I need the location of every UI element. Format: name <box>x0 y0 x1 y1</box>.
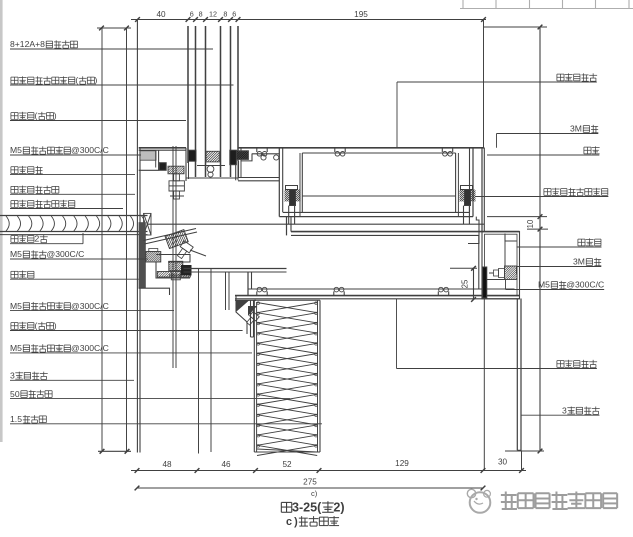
svg-text:): ) <box>54 111 57 121</box>
corner box mid divider <box>487 279 505 281</box>
label flexible shim <box>11 167 18 174</box>
wall line B x=126.5 <box>126 28 128 451</box>
central bolt with hatched head <box>169 261 183 271</box>
outer right face of female unit <box>481 148 483 231</box>
svg-text:(: ( <box>75 75 78 85</box>
bottom small dimension between wall lines <box>98 450 131 452</box>
svg-text:@300C/C: @300C/C <box>71 343 109 353</box>
stack joint seam line <box>148 223 485 225</box>
setting block checkered at glass center <box>206 151 219 162</box>
svg-text:M5: M5 <box>538 280 550 290</box>
insulating glass 8+12A+8 vertical lines <box>187 26 189 163</box>
hex bolt stack left <box>146 252 161 263</box>
black sealant triangles <box>237 301 250 312</box>
bottom dimension line 48/46/52/129/30 <box>131 470 526 472</box>
svg-text:8: 8 <box>199 10 203 19</box>
svg-text:@300C/C: @300C/C <box>46 249 84 259</box>
svg-text:25: 25 <box>461 279 470 288</box>
wall line x=198.5 <box>198 269 200 454</box>
corner unit box outer <box>482 232 520 299</box>
label EPDM gasket black <box>11 77 18 84</box>
svg-text:M5: M5 <box>10 301 22 311</box>
wall lines x=173/176 <box>172 146 174 368</box>
svg-text:6: 6 <box>190 10 194 19</box>
black gasket at decor line <box>160 163 167 171</box>
label sealant black <box>11 113 18 120</box>
svg-text:52: 52 <box>282 460 292 469</box>
label unit male profile <box>557 361 564 368</box>
right dim extension lines <box>487 216 547 218</box>
label aluminium profile right <box>578 239 585 246</box>
black gasket wedge at joint <box>181 265 192 276</box>
transom top castellation pocket <box>241 148 252 161</box>
svg-text:c): c) <box>311 489 318 498</box>
bottom overall dimension 275 <box>137 487 483 489</box>
rotated hatched clamp block on diagonal <box>153 221 211 253</box>
svg-text:195: 195 <box>354 10 368 19</box>
liner sheet top piece <box>250 301 252 338</box>
EPDM gasket black right of glass <box>230 150 237 165</box>
dim 25 vertical at corner <box>473 268 475 299</box>
transom mid line <box>302 195 455 197</box>
svg-text:3M: 3M <box>570 124 582 134</box>
svg-text:@300C/C: @300C/C <box>566 280 604 290</box>
male transom bottom edge <box>248 288 515 290</box>
transom castellation lower teeth <box>252 153 279 155</box>
bracket L profile <box>156 255 190 263</box>
svg-text:3M: 3M <box>573 257 585 267</box>
label sealant joint <box>11 236 18 243</box>
extension line right corner x=484.3 down to dim <box>483 299 485 471</box>
M5 stainless round-head screw vertical <box>168 166 184 174</box>
corner box top-right notch step <box>505 234 517 242</box>
omega notches bottom edge <box>256 291 258 295</box>
svg-text:275: 275 <box>303 478 317 487</box>
top dimension line 40/6/8/12/8/6/195 <box>131 19 486 21</box>
svg-text:(: ( <box>35 321 38 331</box>
svg-text:): ) <box>95 75 98 85</box>
figure title 3-25 <box>281 502 291 512</box>
label aluminium decor line <box>11 186 18 193</box>
svg-text:(: ( <box>35 111 38 121</box>
diagonal bolt through clamp <box>175 241 193 260</box>
svg-text:30: 30 <box>498 458 508 467</box>
label aluminium profile <box>11 271 18 278</box>
label EPDM gasket right <box>544 189 551 196</box>
transom outer box walls <box>278 148 280 217</box>
diagonal flexible shim strip <box>144 229 197 241</box>
male transom upper edge right part <box>291 231 520 233</box>
top-left small dimension <box>97 27 131 29</box>
svg-text:6: 6 <box>232 10 236 19</box>
svg-text:48: 48 <box>162 460 172 469</box>
svg-text:2: 2 <box>35 234 40 244</box>
wall line C x=137.4 outer panel <box>136 20 138 453</box>
transom chamber <box>301 153 303 212</box>
extension 195 end x=483.5 <box>483 20 485 149</box>
3mm aluminium sheet right vertical <box>516 299 518 451</box>
svg-text:40: 40 <box>156 10 166 19</box>
black clamp piece in pocket <box>235 151 248 160</box>
svg-text:12: 12 <box>209 10 217 19</box>
top table remnant <box>460 8 633 10</box>
male transom left wall <box>247 272 249 296</box>
label corner aluminium angle <box>584 147 591 154</box>
EPDM gasket black left of glass <box>189 150 197 161</box>
T-bolt right in transom <box>461 186 473 190</box>
svg-text:M5: M5 <box>10 343 22 353</box>
svg-text:129: 129 <box>395 459 409 468</box>
label sealant black 2 <box>11 323 18 330</box>
M5 screw cluster in corner box <box>505 266 518 280</box>
page left edge gray strip <box>0 0 3 442</box>
male transom step leg from seam <box>286 217 288 236</box>
svg-text:3: 3 <box>562 405 567 415</box>
svg-text:@300C/C: @300C/C <box>71 301 109 311</box>
corner unit box inner <box>485 234 518 296</box>
backer rod sealant tube left <box>0 215 148 217</box>
tube end cross cap <box>144 213 151 235</box>
unit female transom top edge <box>139 147 186 149</box>
hatched seat bar <box>157 272 190 278</box>
svg-text:50: 50 <box>10 389 20 399</box>
svg-text:): ) <box>54 321 57 331</box>
svg-text:1.5: 1.5 <box>10 414 22 424</box>
insulation boundaries <box>253 300 255 452</box>
svg-text:M5: M5 <box>10 249 22 259</box>
panel fixing bracket below male transom <box>236 295 247 334</box>
svg-text:8+12A+8: 8+12A+8 <box>10 39 45 49</box>
aluminium decor line bracket <box>139 149 186 151</box>
angled rivet <box>245 312 259 327</box>
insulation zigzag batting 50mm <box>257 303 317 313</box>
setting block circle detail <box>207 166 214 173</box>
label unit female profile <box>557 74 564 81</box>
svg-text:3-25(: 3-25( <box>292 500 322 514</box>
glazing pocket walls and shelf <box>185 148 187 181</box>
label EPDM gasket 2 <box>11 201 18 208</box>
wall line D x=140 outer panel inner face <box>139 148 141 453</box>
hook leg to corner unit <box>468 217 479 244</box>
male transom left-portion top edge <box>184 268 287 270</box>
wall line A x=102 <box>101 28 103 451</box>
svg-text:M5: M5 <box>10 145 22 155</box>
svg-text:8: 8 <box>223 10 227 19</box>
wall line x=211 <box>210 269 212 452</box>
male transom right wall <box>478 235 480 289</box>
T-bolt left in transom <box>286 186 298 190</box>
watermark logo <box>470 492 491 513</box>
svg-text:46: 46 <box>221 460 231 469</box>
3M tape black bar <box>483 267 487 298</box>
svg-text:3: 3 <box>10 371 15 381</box>
omega screw-port notches top edge <box>256 148 258 152</box>
shelf below bracket <box>139 288 170 295</box>
gray panel bar <box>139 222 146 288</box>
svg-text:10: 10 <box>526 219 535 228</box>
svg-text:2): 2) <box>333 500 344 514</box>
watermark text men chuang mu qiang lian meng ba <box>501 492 517 510</box>
svg-text:@300C/C: @300C/C <box>71 145 109 155</box>
right vertical dimension line with 10 <box>484 26 547 28</box>
inner leg lines left <box>225 272 227 310</box>
